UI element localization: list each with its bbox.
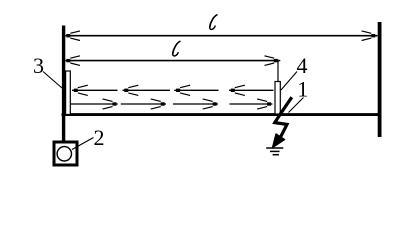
- svg-text:3: 3: [33, 53, 44, 78]
- svg-text:1: 1: [297, 77, 308, 102]
- svg-text:2: 2: [94, 125, 105, 150]
- svg-text:4: 4: [297, 53, 308, 78]
